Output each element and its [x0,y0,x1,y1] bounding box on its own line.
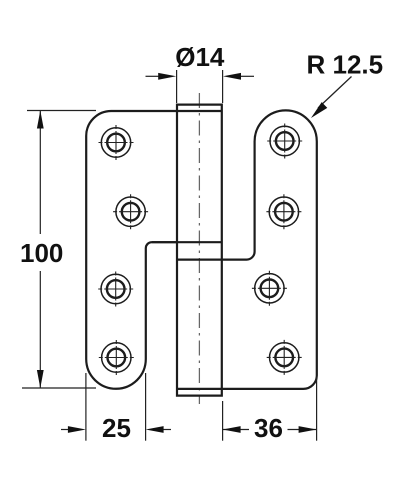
svg-text:R 12.5: R 12.5 [307,50,384,80]
svg-text:25: 25 [102,413,131,443]
svg-text:Ø14: Ø14 [175,42,225,72]
svg-text:100: 100 [20,238,63,268]
svg-text:36: 36 [254,413,283,443]
